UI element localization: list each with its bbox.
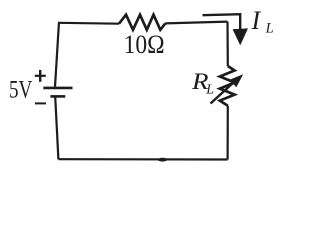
svg-text:5V: 5V <box>9 76 32 103</box>
wire top-left horizontal <box>59 22 119 25</box>
wire right lower vertical <box>227 106 229 160</box>
node junction dot <box>158 158 168 162</box>
battery V1 bottom plate (negative) <box>50 95 65 98</box>
resistor RL zigzag (load) <box>220 66 235 106</box>
variable resistor arrow through RL <box>211 74 244 103</box>
wire left upper vertical <box>55 22 59 87</box>
current arrow IL <box>203 14 249 45</box>
wire left lower vertical <box>55 96 58 159</box>
wire right upper vertical <box>226 22 229 66</box>
svg-text:L: L <box>265 20 274 36</box>
wire top-right horizontal <box>165 22 227 24</box>
plus sign <box>35 70 46 82</box>
battery V1 top plate (positive) <box>43 87 72 90</box>
svg-text:10Ω: 10Ω <box>124 30 165 59</box>
svg-text:I: I <box>251 6 262 35</box>
minus sign <box>35 102 46 104</box>
wire bottom horizontal <box>58 158 227 161</box>
resistor R1 zigzag 10 ohm <box>119 15 165 30</box>
svg-text:L: L <box>205 83 214 98</box>
